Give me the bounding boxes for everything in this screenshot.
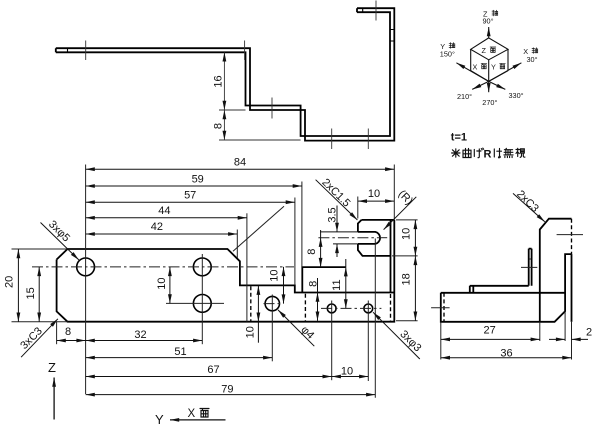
svg-text:59: 59: [192, 174, 204, 186]
svg-text:R: R: [484, 149, 492, 161]
svg-text:36: 36: [500, 348, 512, 360]
svg-text:270°: 270°: [482, 98, 497, 107]
svg-text:10: 10: [401, 228, 413, 240]
svg-text:51: 51: [174, 346, 186, 358]
svg-text:10: 10: [368, 188, 380, 200]
svg-text:t=1: t=1: [451, 132, 467, 144]
svg-text:20: 20: [4, 276, 16, 288]
svg-text:210°: 210°: [457, 92, 472, 101]
svg-text:15: 15: [25, 287, 37, 299]
svg-text:30°: 30°: [527, 55, 538, 64]
svg-text:150°: 150°: [440, 50, 455, 59]
svg-text:42: 42: [151, 221, 163, 233]
svg-text:Z: Z: [482, 46, 487, 55]
svg-text:84: 84: [234, 156, 246, 168]
svg-text:10: 10: [245, 326, 257, 338]
svg-text:27: 27: [483, 325, 495, 337]
svg-text:Y: Y: [491, 62, 496, 71]
svg-text:79: 79: [221, 384, 233, 396]
svg-text:330°: 330°: [509, 91, 524, 100]
svg-text:10: 10: [269, 269, 281, 281]
svg-text:10: 10: [156, 277, 168, 289]
svg-text:X: X: [188, 408, 196, 420]
svg-text:Y: Y: [155, 412, 164, 427]
svg-text:18: 18: [401, 273, 413, 285]
svg-text:8: 8: [307, 281, 319, 287]
svg-text:32: 32: [134, 329, 146, 341]
svg-text:8: 8: [306, 249, 318, 255]
svg-text:44: 44: [158, 205, 170, 217]
svg-text:X: X: [473, 62, 478, 71]
svg-text:57: 57: [184, 189, 196, 201]
svg-text:90°: 90°: [483, 17, 494, 26]
svg-text:8: 8: [65, 326, 71, 338]
svg-text:11: 11: [331, 279, 343, 290]
svg-text:10: 10: [341, 365, 353, 377]
svg-text:16: 16: [212, 75, 224, 87]
svg-text:Z: Z: [48, 360, 56, 375]
svg-text:8: 8: [212, 123, 224, 129]
svg-text:2: 2: [586, 327, 592, 339]
svg-text:67: 67: [207, 364, 219, 376]
